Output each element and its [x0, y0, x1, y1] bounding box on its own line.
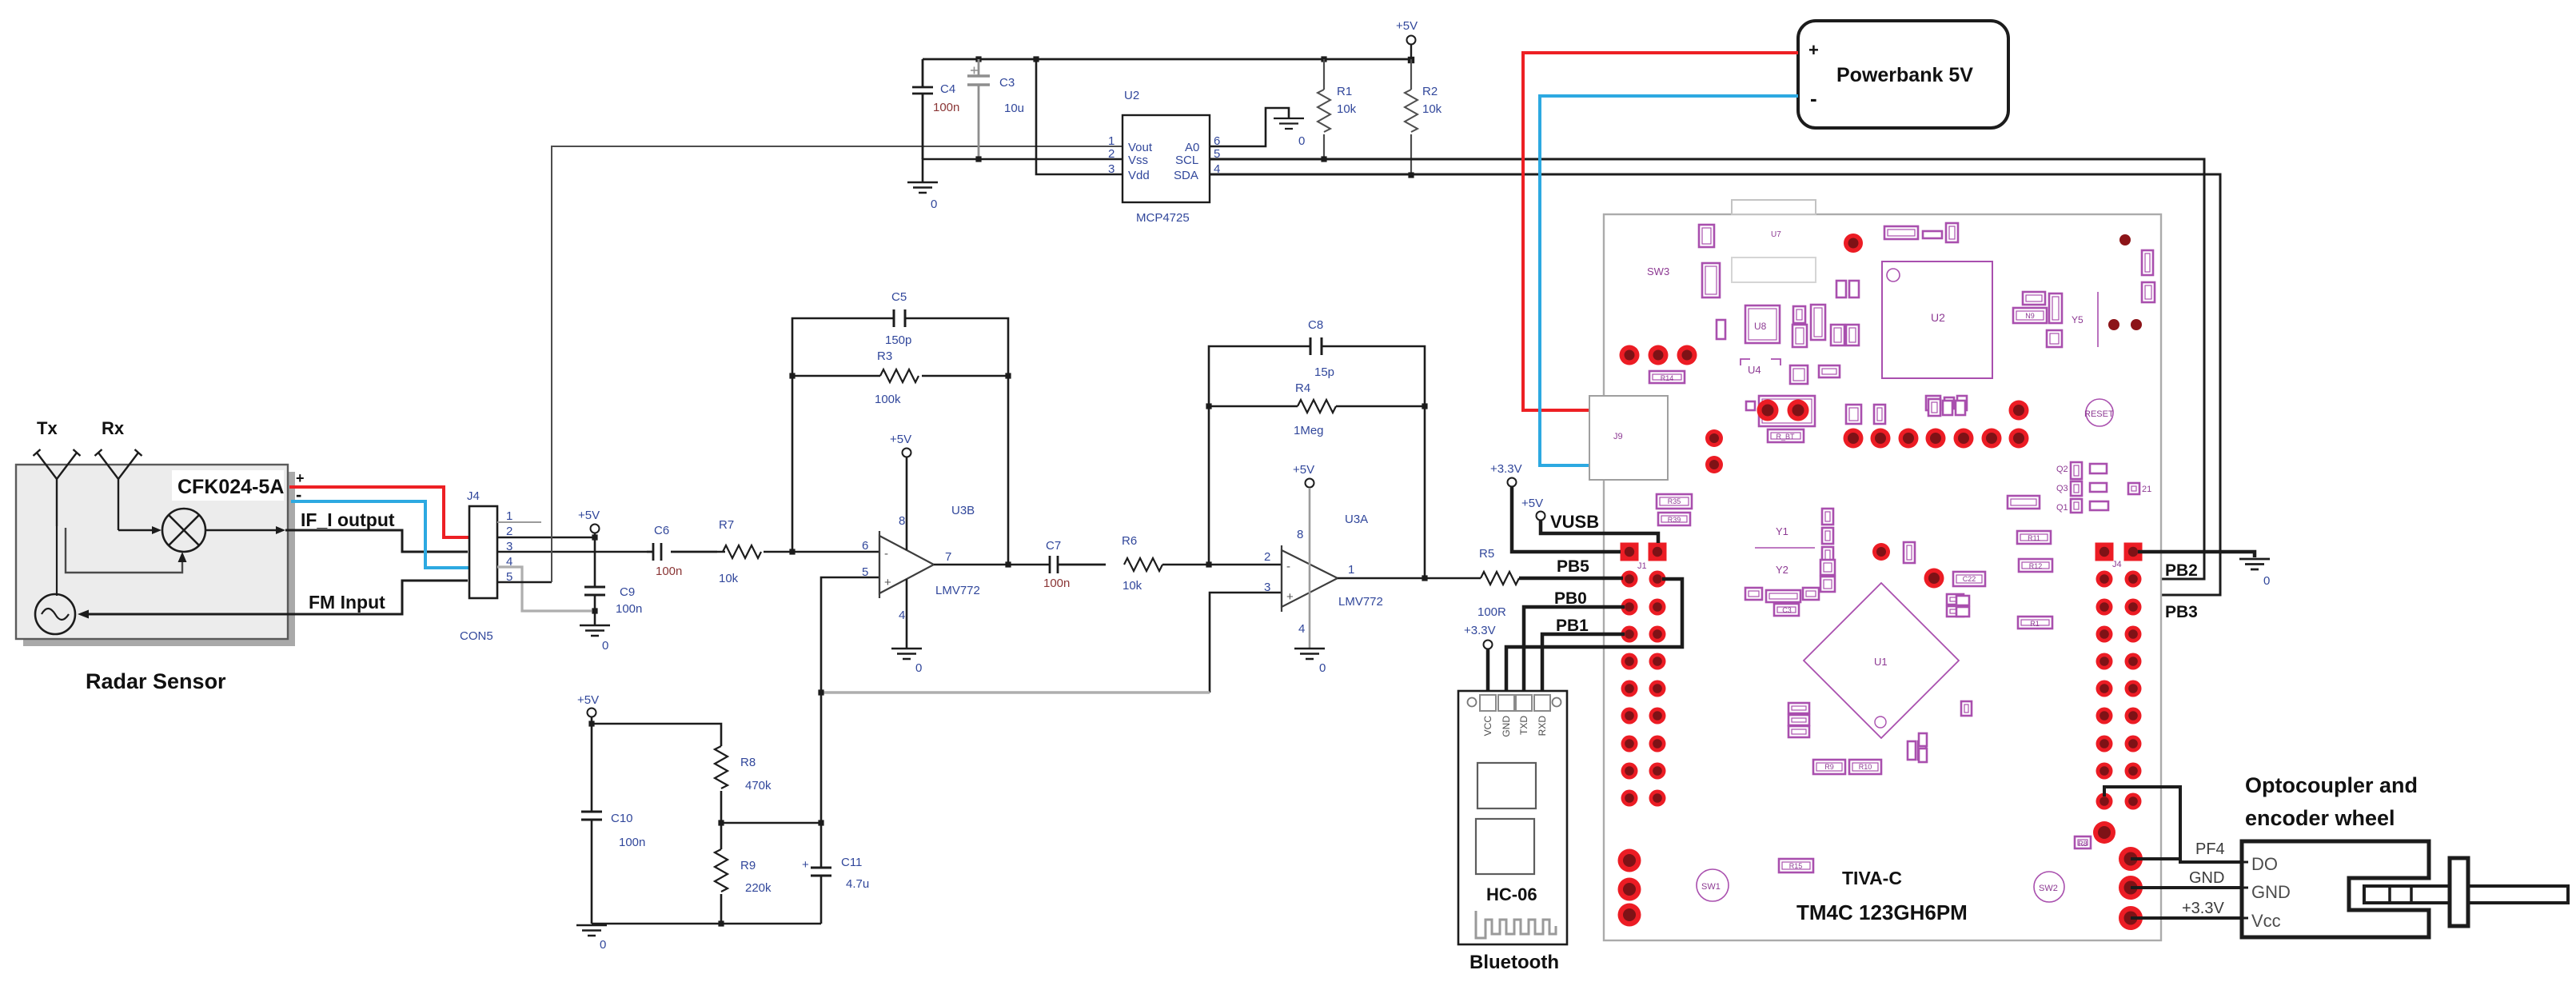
switch SW1 [1697, 869, 1729, 901]
svg-text:PB0: PB0 [1554, 589, 1587, 608]
svg-text:C22: C22 [1963, 575, 1976, 583]
svg-text:0: 0 [1298, 134, 1305, 148]
svg-text:150p: 150p [885, 333, 911, 347]
svg-text:U3A: U3A [1345, 513, 1368, 526]
svg-text:Q1: Q1 [2056, 503, 2068, 513]
svg-text:+5V: +5V [1396, 19, 1418, 33]
svg-text:1: 1 [1108, 134, 1115, 148]
svg-text:CON5: CON5 [460, 629, 493, 643]
bluetooth module HC-06 [1458, 691, 1567, 944]
resistor R2 10k [1410, 59, 1412, 90]
gray feedback wire to op-amp + inputs [821, 691, 1210, 693]
svg-text:-: - [1810, 86, 1817, 110]
J4 pin 2 wire to +5V node [497, 537, 595, 539]
encoder wheel [2450, 858, 2468, 926]
IC U1 diamond [1804, 583, 1959, 738]
svg-text:0: 0 [1319, 661, 1326, 675]
svg-text:Vcc: Vcc [2251, 911, 2281, 931]
pcb small components [1649, 223, 2155, 872]
svg-text:1: 1 [506, 509, 512, 523]
radar sensor block CFK024-5A [16, 465, 295, 646]
svg-text:R9: R9 [1824, 763, 1834, 771]
svg-text:+: + [884, 576, 891, 589]
svg-text:+: + [802, 858, 809, 872]
svg-text:J9: J9 [1613, 432, 1623, 441]
svg-text:10k: 10k [719, 572, 739, 585]
wire stage2 output [1338, 577, 1481, 580]
svg-text:100n: 100n [1043, 577, 1070, 590]
svg-text:CFK024-5A: CFK024-5A [177, 476, 284, 498]
J4 pin 5 wire to DAC Vout [497, 581, 552, 584]
svg-text:Y1: Y1 [1776, 525, 1788, 537]
J4 pin 4 gray ground wire [497, 567, 592, 611]
misc board pads [1618, 234, 2143, 930]
ground Vss [907, 182, 938, 193]
svg-text:R2: R2 [1422, 85, 1438, 98]
svg-text:GND: GND [2251, 882, 2291, 902]
svg-text:U2: U2 [1124, 89, 1139, 102]
svg-text:J4: J4 [2112, 560, 2122, 569]
wire Tx to oscillator [56, 526, 58, 596]
svg-text:MCP4725: MCP4725 [1136, 211, 1190, 225]
switch SW2 [2034, 872, 2064, 902]
svg-text:Powerbank 5V: Powerbank 5V [1836, 64, 1973, 86]
capacitor C3 10u polarized [978, 59, 980, 159]
svg-text:Radar Sensor: Radar Sensor [86, 669, 226, 693]
capacitor C9 100n [584, 587, 605, 595]
svg-text:C4: C4 [940, 82, 955, 96]
svg-text:100R: 100R [1477, 605, 1506, 619]
connector J4 CON5 [469, 506, 497, 598]
svg-text:R10: R10 [1859, 763, 1872, 771]
connector J9 [1589, 396, 1668, 480]
svg-text:A0: A0 [1185, 141, 1199, 154]
svg-text:PF4: PF4 [2195, 840, 2225, 858]
svg-text:5: 5 [862, 565, 868, 579]
svg-text:R1: R1 [1337, 85, 1352, 98]
svg-text:+: + [1808, 40, 1819, 60]
svg-text:+5V: +5V [890, 433, 911, 446]
wire SDA to PB3 [1210, 174, 2220, 602]
svg-text:0: 0 [602, 639, 608, 653]
wire VUSB to J1 [1541, 521, 1658, 543]
svg-text:TXD: TXD [1518, 716, 1529, 735]
wire Vcc optocoupler [2131, 916, 2242, 920]
wire PB0 to HC06 TXD [1524, 607, 1625, 695]
svg-text:R_BT: R_BT [1776, 433, 1795, 441]
wire PB5 [1519, 577, 1623, 581]
svg-text:+5V: +5V [1293, 463, 1314, 477]
svg-text:10k: 10k [1123, 579, 1142, 593]
antenna Rx [95, 449, 142, 530]
svg-text:U3B: U3B [951, 504, 975, 517]
svg-text:+: + [1286, 590, 1294, 604]
svg-text:2: 2 [1264, 550, 1270, 564]
wire PB1 to HC06 RXD [1542, 634, 1625, 695]
wire blue radar minus to J4 pin4 [291, 501, 469, 568]
svg-text:R35: R35 [1668, 497, 1681, 505]
wire FM Input [88, 581, 468, 614]
svg-text:+3.3V: +3.3V [2182, 900, 2224, 917]
capacitor C10 100n [581, 812, 602, 820]
svg-text:PB3: PB3 [2165, 603, 2198, 621]
svg-text:U8: U8 [1754, 321, 1767, 332]
svg-text:C3: C3 [999, 76, 1015, 90]
ground at C9 [580, 625, 610, 636]
svg-text:GND: GND [2189, 869, 2224, 887]
svg-text:100n: 100n [619, 836, 645, 849]
svg-text:100k: 100k [875, 393, 901, 406]
svg-text:R15: R15 [1789, 862, 1803, 870]
svg-text:PB5: PB5 [1557, 557, 1589, 576]
wire Vdd from +5V rail [1036, 59, 1123, 174]
svg-text:J1: J1 [1637, 561, 1647, 571]
powerbank 5V box [1798, 21, 2008, 128]
optocoupler box [2242, 841, 2429, 937]
svg-text:R1: R1 [2030, 620, 2040, 628]
feedback loop stage2 [1209, 346, 1425, 578]
svg-text:TM4C 123GH6PM: TM4C 123GH6PM [1796, 900, 1968, 924]
svg-text:PB2: PB2 [2165, 561, 2198, 580]
supply VUSB +5V [1537, 512, 1545, 521]
capacitor C4 100n [912, 59, 933, 159]
svg-text:+3.3V: +3.3V [1490, 462, 1522, 476]
capacitor C5 150p [894, 309, 905, 327]
svg-text:4: 4 [899, 609, 905, 622]
svg-text:R39: R39 [1668, 516, 1681, 524]
label IF_I output [297, 507, 401, 531]
svg-text:5: 5 [506, 570, 512, 584]
HC06 pin tabs [1480, 695, 1496, 711]
svg-text:Y2: Y2 [1776, 564, 1788, 576]
wire HC06 GND loop [1506, 579, 1682, 695]
svg-text:R6: R6 [1122, 534, 1137, 548]
svg-text:4.7u: 4.7u [846, 877, 869, 891]
supply +5V op-amp1 [903, 449, 911, 457]
svg-text:Tx: Tx [37, 418, 58, 438]
svg-text:R5: R5 [1479, 547, 1494, 561]
supply +5V bias [588, 709, 596, 717]
svg-text:LMV772: LMV772 [1338, 595, 1383, 609]
svg-text:GND: GND [1501, 716, 1512, 737]
svg-text:SW3: SW3 [1647, 265, 1669, 277]
svg-text:SCL: SCL [1175, 154, 1198, 167]
svg-text:100n: 100n [656, 565, 682, 578]
svg-text:VCC: VCC [1482, 716, 1493, 737]
resistor R6 10k [1124, 558, 1162, 571]
node stage1 inverting input [789, 549, 795, 554]
resistor R1 10k [1323, 59, 1325, 90]
capacitor C6 100n [647, 543, 717, 561]
svg-text:C7: C7 [1046, 539, 1061, 553]
svg-text:1Meg: 1Meg [1294, 424, 1324, 437]
supply +5V op-amp2 [1306, 479, 1314, 488]
svg-text:3: 3 [506, 540, 512, 553]
svg-text:IF_I output: IF_I output [301, 509, 395, 530]
svg-text:21: 21 [2142, 485, 2151, 494]
ground op-amp2 [1294, 649, 1325, 659]
svg-text:Vss: Vss [1128, 154, 1148, 167]
svg-text:100n: 100n [616, 602, 642, 616]
encoder shaft [2364, 886, 2568, 903]
svg-text:2: 2 [506, 525, 512, 538]
svg-text:8: 8 [899, 514, 905, 528]
svg-text:PB1: PB1 [1556, 617, 1589, 635]
svg-text:10u: 10u [1004, 102, 1024, 115]
svg-text:RESET: RESET [2084, 409, 2114, 419]
node +5V at J4 [591, 525, 600, 533]
svg-text:-: - [1286, 560, 1290, 573]
svg-text:Q3: Q3 [2056, 484, 2068, 493]
svg-text:C6: C6 [654, 524, 669, 537]
svg-text:U1: U1 [1874, 656, 1888, 668]
wire DAC Vout to J4 pin5 [552, 146, 1123, 582]
wire +3.3V to HC06 VCC [1486, 649, 1490, 695]
wire oscillator to mixer LO [66, 528, 182, 573]
resistor R7 10k [723, 545, 761, 558]
wire blue powerbank minus [1540, 96, 1798, 465]
label FM Input [305, 590, 392, 613]
svg-text:0: 0 [915, 661, 922, 675]
svg-text:R14: R14 [1661, 374, 1674, 382]
antenna Tx [34, 449, 81, 526]
svg-text:4: 4 [506, 555, 512, 569]
svg-text:Bluetooth: Bluetooth [1469, 952, 1559, 973]
resistor R5 100R [1481, 572, 1519, 585]
wire SCL to PB2 [1210, 159, 2204, 579]
svg-text:8: 8 [1297, 528, 1303, 541]
svg-text:4: 4 [1298, 622, 1305, 636]
svg-text:R12: R12 [2029, 562, 2043, 570]
ground PB2 [2239, 559, 2270, 569]
resistor R3 100k [792, 375, 1008, 377]
wire IF_I output [285, 530, 468, 552]
svg-text:Vout: Vout [1128, 141, 1153, 154]
IC U2 on board [1882, 261, 1992, 378]
mixer [162, 509, 205, 552]
capacitor C8 15p [1310, 337, 1322, 355]
svg-text:+3.3V: +3.3V [1464, 624, 1496, 637]
svg-text:1: 1 [1348, 563, 1354, 577]
svg-text:VUSB: VUSB [1550, 512, 1599, 532]
capacitor C7 100n [1050, 556, 1106, 573]
svg-text:0: 0 [931, 198, 937, 211]
svg-text:7: 7 [945, 550, 951, 564]
svg-text:C3: C3 [1782, 606, 1792, 614]
ground bias [576, 925, 607, 936]
wire Rx to mixer [118, 529, 154, 531]
svg-text:100n: 100n [933, 101, 959, 114]
svg-text:SW2: SW2 [2039, 884, 2058, 893]
svg-text:DO: DO [2251, 854, 2278, 874]
svg-text:J4: J4 [467, 489, 480, 503]
svg-text:C11: C11 [841, 856, 862, 869]
svg-text:SDA: SDA [1174, 169, 1198, 182]
supply +3.3V HC06 [1484, 641, 1493, 649]
supply +5V rail [1407, 36, 1416, 45]
svg-text:Optocoupler and: Optocoupler and [2245, 773, 2418, 797]
svg-text:+: + [296, 470, 305, 486]
svg-text:Rx: Rx [102, 418, 125, 438]
HC06 antenna meander [1476, 911, 1556, 938]
J4 pin 1 stub [497, 521, 541, 523]
supply +3.3V J1 [1508, 478, 1517, 487]
wire stage1 output [934, 564, 1050, 566]
wire +5V top rail [923, 58, 1411, 61]
svg-text:U4: U4 [1748, 364, 1761, 376]
label CFK024-5A [172, 470, 284, 501]
svg-text:C8: C8 [1308, 318, 1323, 332]
svg-text:470k: 470k [745, 779, 772, 792]
dark pads [2108, 234, 2142, 330]
svg-text:-: - [884, 547, 888, 561]
wire mixer IF output [205, 529, 276, 531]
J4 pin 3 wire (signal) [497, 551, 647, 553]
svg-text:Q2: Q2 [2056, 465, 2068, 474]
svg-text:R11: R11 [2028, 534, 2040, 542]
svg-text:3: 3 [1264, 581, 1270, 594]
svg-text:R8: R8 [740, 756, 756, 769]
svg-text:0: 0 [600, 938, 606, 952]
wire PF4 [2104, 787, 2242, 862]
svg-text:Vdd: Vdd [1128, 169, 1150, 182]
wire Vss rail [923, 159, 1123, 182]
wire +3.3V to J1 [1512, 487, 1621, 552]
header J1 pads [1621, 543, 1667, 807]
wire red radar plus to J4 pin2 [289, 487, 469, 537]
svg-text:SW1: SW1 [1701, 882, 1721, 892]
svg-text:LMV772: LMV772 [935, 584, 980, 597]
HC06 shield cans [1477, 763, 1536, 808]
svg-text:R3: R3 [877, 349, 892, 363]
usb connector silk [1732, 200, 1816, 214]
wire feedback left [792, 318, 1008, 565]
svg-text:R4: R4 [1295, 381, 1310, 395]
svg-text:FM Input: FM Input [309, 592, 385, 613]
capacitor C11 4.7u [820, 823, 823, 868]
wire bias bottom [592, 923, 821, 925]
wire divider tap [721, 822, 821, 824]
svg-text:U2: U2 [1931, 311, 1945, 324]
svg-text:0: 0 [2263, 574, 2270, 588]
header J2 pads [2095, 543, 2143, 810]
svg-text:+5V: +5V [1521, 497, 1543, 510]
svg-text:RXD: RXD [1537, 716, 1548, 737]
svg-text:+5V: +5V [578, 509, 600, 522]
wire PB2 gnd [2138, 552, 2255, 557]
resistor R9 220k [720, 823, 723, 849]
ground op-amp1 [891, 649, 922, 659]
IC U2 MCP4725 [1123, 115, 1210, 202]
wire A0 to ground [1210, 108, 1289, 146]
wire red powerbank plus [1523, 53, 1798, 410]
wire +input stage2 [1210, 593, 1282, 693]
wire GND optocoupler [2131, 886, 2242, 889]
svg-text:C5: C5 [891, 290, 907, 304]
wire bias top [592, 724, 721, 746]
svg-text:10k: 10k [1337, 102, 1357, 116]
svg-text:15p: 15p [1314, 365, 1334, 379]
op-amp U3B LMV772 [879, 536, 934, 593]
op-amp U3A LMV772 [1282, 550, 1338, 607]
svg-text:N9: N9 [2025, 312, 2035, 320]
svg-text:10k: 10k [1422, 102, 1442, 116]
U4 bracket [1741, 359, 1780, 365]
svg-text:R7: R7 [719, 518, 734, 532]
svg-text:6: 6 [862, 539, 868, 553]
svg-text:R9: R9 [740, 859, 756, 872]
svg-text:R8: R8 [2078, 840, 2088, 848]
resistor R8 470k [715, 746, 728, 788]
svg-text:C9: C9 [620, 585, 635, 599]
svg-text:C10: C10 [611, 812, 633, 825]
svg-text:encoder wheel: encoder wheel [2245, 806, 2395, 830]
reset button [2086, 399, 2113, 426]
svg-text:Y5: Y5 [2072, 314, 2084, 325]
TIVA-C launchpad board [1604, 214, 2161, 940]
wire +input stage1 [821, 577, 879, 693]
svg-text:220k: 220k [745, 881, 772, 895]
svg-text:+5V: +5V [577, 693, 599, 707]
svg-text:TIVA-C: TIVA-C [1842, 868, 1902, 888]
svg-text:HC-06: HC-06 [1486, 884, 1537, 904]
resistor R4 1Meg [1209, 405, 1425, 408]
oscillator [35, 594, 75, 634]
svg-text:U7: U7 [1771, 230, 1781, 239]
